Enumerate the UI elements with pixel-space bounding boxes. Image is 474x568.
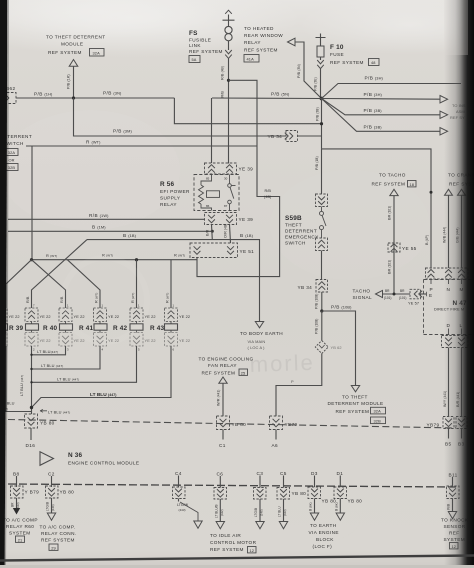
svg-text:SYSTEM: SYSTEM — [9, 531, 31, 536]
svg-text:TO THEFT: TO THEFT — [342, 395, 368, 400]
wire R (WT) from deterrent switch — [26, 145, 257, 147]
svg-text:YE 51: YE 51 — [240, 249, 255, 254]
arrow up to tacho — [390, 189, 398, 195]
text TO EARTH VIA ENGINE BLOCK — [309, 523, 339, 549]
svg-text:A6: A6 — [272, 443, 279, 448]
open arrow down (C5) — [279, 522, 287, 529]
svg-text:REF SYSTEM: REF SYSTEM — [41, 538, 75, 543]
svg-text:P/B (10B): P/B (10B) — [315, 294, 319, 309]
svg-text:LT BLU(447): LT BLU(447) — [37, 349, 58, 354]
wire P/B (10B) continues down — [321, 311, 323, 341]
svg-text:REF SYSTEM: REF SYSTEM — [189, 49, 223, 54]
pin labels B5 B3 — [445, 442, 465, 447]
junction dots on LT BLU bus — [30, 354, 32, 356]
svg-text:LT BLU (447): LT BLU (447) — [48, 410, 70, 415]
wire R/B branch right, down past relay to YE51 — [197, 80, 280, 276]
svg-text:P/B (3H): P/B (3H) — [365, 76, 384, 81]
N47 pin stubs into box — [431, 280, 462, 285]
junction dot B on feed bus — [135, 258, 138, 261]
ref box 48 — [369, 59, 380, 66]
ref box 32A (deterrent switch) — [6, 149, 18, 156]
arrow to theft deterrent module (up triangle) — [69, 60, 78, 67]
svg-text:C2: C2 — [48, 472, 55, 477]
wire R (WT) resistor feed bus — [32, 259, 198, 261]
switch S59B — [320, 207, 327, 239]
fusible link FS symbol — [223, 10, 235, 58]
svg-text:C1: C1 — [219, 443, 226, 448]
svg-text:25: 25 — [241, 370, 246, 375]
svg-text:TO IDLE AIR: TO IDLE AIR — [210, 533, 241, 538]
text TO KNOCK SENSOR — [441, 518, 469, 543]
svg-text:YE 22: YE 22 — [145, 338, 156, 343]
svg-text:P/B (10B): P/B (10B) — [331, 304, 352, 309]
wire R/B (4B) from fusible link down to relay — [228, 58, 230, 163]
svg-text:( LOC A ): ( LOC A ) — [248, 345, 266, 350]
svg-text:P/B (10B): P/B (10B) — [315, 319, 319, 334]
wire feed to R43 — [170, 260, 172, 308]
svg-text:YB 80: YB 80 — [40, 421, 55, 426]
connector above S59B (chevrons down) — [316, 194, 328, 207]
svg-text:YB 80: YB 80 — [292, 491, 307, 496]
svg-text:B8: B8 — [13, 472, 20, 477]
connector YB62 at left edge — [1, 86, 16, 104]
svg-text:D3: D3 — [311, 471, 318, 476]
svg-text:32B: 32B — [374, 418, 382, 423]
svg-text:YE 39: YE 39 — [239, 217, 254, 222]
junction dot P/B 10B — [320, 309, 323, 312]
open arrow down (knock sensor) — [448, 512, 456, 519]
svg-text:VIA ENGINE: VIA ENGINE — [309, 530, 339, 535]
wire B/R (441) from N47 L — [461, 348, 463, 417]
svg-text:YB 34: YB 34 — [268, 134, 283, 139]
wire P/B (10B) below YB34 — [321, 292, 323, 311]
svg-text:(443): (443) — [283, 509, 287, 516]
wire P/B (3H) top branch to right edge — [322, 84, 462, 99]
wire P/B (3B) arrow branch 3 — [322, 99, 441, 132]
open arrow down (C3) — [256, 522, 264, 529]
ref box 32B (deterrent switch) — [6, 164, 18, 171]
svg-text:R 56: R 56 — [160, 181, 175, 188]
wire B (1B) to body earth — [87, 240, 260, 322]
S59B labels — [285, 215, 319, 246]
junction dot A on feed bus — [30, 258, 33, 261]
text TO A/C COMP RELAY CONN — [40, 525, 77, 543]
svg-text:S59B: S59B — [285, 215, 302, 222]
svg-text:FAN RELAY: FAN RELAY — [208, 363, 237, 368]
svg-text:32B: 32B — [8, 165, 16, 170]
wire G/B (444) crank 2 down — [461, 195, 463, 268]
ref box 12 (idle air) — [248, 547, 257, 553]
wire jog P/B down to y123.7 then right to S59B vertical — [174, 98, 321, 124]
svg-text:29: 29 — [51, 545, 56, 550]
wire diagonal feed to R38 column — [6, 260, 32, 308]
svg-text:P/B (1K): P/B (1K) — [67, 74, 71, 89]
svg-text:BR: BR — [385, 289, 390, 293]
ref box 21 — [16, 536, 25, 542]
arrow up to engine cooling fan relay — [219, 377, 227, 383]
svg-text:REF SYSTEM: REF SYSTEM — [202, 371, 236, 376]
svg-text:LT BLU (447): LT BLU (447) — [57, 376, 79, 381]
svg-text:C6: C6 — [217, 472, 224, 477]
N36 identification triangle — [40, 452, 54, 466]
text TO A/C COMP RELAY R60 — [3, 518, 38, 536]
svg-text:THEFT: THEFT — [285, 223, 302, 228]
connector YE22 bottom R41 — [94, 333, 120, 347]
arrow head right 2 — [440, 111, 448, 118]
solid arrow down (A/C comp relay) — [13, 508, 20, 515]
svg-text:BR (101): BR (101) — [388, 206, 392, 220]
svg-text:LTG/B: LTG/B — [254, 508, 258, 517]
svg-text:R 43: R 43 — [150, 325, 165, 332]
svg-text:86: 86 — [206, 204, 210, 208]
wire LT BLU bus from R39 down to YB80 — [31, 346, 33, 414]
svg-text:R (WT): R (WT) — [166, 293, 170, 303]
wire stub to pin A6 — [275, 430, 277, 440]
N47 labels — [434, 300, 467, 312]
resistor R41 — [79, 322, 107, 333]
svg-text:FS: FS — [189, 30, 198, 37]
wire P/B from arrow down to main feed — [73, 66, 75, 98]
connector YB34 (chevrons up) — [298, 280, 328, 293]
ref box 5A — [189, 56, 200, 63]
svg-text:R (WT): R (WT) — [86, 140, 101, 145]
N47 module box (dashed) — [424, 280, 474, 335]
module N36 top boundary (dashed) — [8, 420, 456, 429]
svg-text:YE 22: YE 22 — [40, 338, 51, 343]
text TO TACHO — [372, 173, 406, 187]
svg-text:P/B (1H): P/B (1H) — [34, 92, 53, 97]
text TO ENGINE COOLING FAN RELAY — [199, 357, 254, 376]
connector YE22 bottom row R38 (partial) — [0, 333, 7, 347]
wire W/B to knock sensor — [452, 499, 454, 512]
wire ladder B (1M) — [8, 230, 212, 232]
svg-text:BLOCK: BLOCK — [316, 537, 334, 542]
svg-text:18: 18 — [410, 182, 415, 187]
svg-text:SIGNAL: SIGNAL — [353, 295, 372, 300]
svg-text:R (WT): R (WT) — [95, 293, 99, 303]
N36 labels — [68, 452, 139, 466]
wire down from S59B to YB34 — [321, 251, 323, 280]
svg-text:(146): (146) — [51, 504, 55, 511]
svg-text:P/B (3E): P/B (3E) — [314, 77, 318, 91]
connector below S59B (chevrons up) — [316, 238, 328, 251]
connector YE22 top R40 — [59, 308, 85, 322]
wire diagonal feed to R40 — [32, 260, 66, 308]
connector YB80 on ECM boundary (C1) — [217, 416, 247, 430]
svg-text:R/B (1W): R/B (1W) — [89, 213, 109, 218]
wire LTG/W (443) with jog — [178, 499, 180, 502]
fuse F10 labels — [330, 44, 364, 65]
wire stub to pin D16 — [30, 428, 32, 440]
svg-text:O/R (4B): O/R (4B) — [224, 224, 228, 238]
resistor R42 — [113, 322, 143, 333]
connector YE57 (chevrons left) — [408, 289, 422, 305]
connector YE22 top R39 — [25, 308, 51, 322]
relay pin numbers — [206, 177, 228, 209]
svg-text:LT BLU: LT BLU — [278, 506, 282, 517]
wire B (BK) D1 — [339, 499, 341, 514]
svg-text:P: P — [291, 379, 294, 384]
svg-text:85: 85 — [206, 177, 210, 181]
svg-text:B (BK): B (BK) — [309, 502, 313, 511]
wire down then left to YB79 — [276, 354, 322, 417]
svg-text:YB 80: YB 80 — [60, 490, 75, 495]
svg-text:R 39: R 39 — [9, 325, 24, 332]
svg-text:TO EARTH: TO EARTH — [310, 523, 337, 528]
resistor R39 — [9, 322, 39, 333]
connector YE39 pair above relay — [205, 163, 254, 174]
relay R56 contact — [228, 175, 236, 211]
svg-text:SUPPLY: SUPPLY — [160, 196, 181, 201]
svg-text:Y B79: Y B79 — [25, 490, 40, 495]
connector YB34 (right chevrons) — [268, 131, 298, 142]
svg-text:12: 12 — [250, 548, 255, 553]
svg-text:TO BODY EARTH: TO BODY EARTH — [240, 331, 283, 336]
svg-text:REAR WINDOW: REAR WINDOW — [244, 33, 283, 38]
pin labels P N M — [430, 287, 464, 292]
svg-text:LT BLU/B: LT BLU/B — [214, 504, 218, 518]
svg-text:R 41: R 41 — [79, 325, 94, 332]
connector YE22 bottom R42 — [130, 333, 156, 347]
wire tacho signal horizontal — [383, 293, 411, 295]
svg-text:BR (101): BR (101) — [388, 260, 392, 274]
svg-text:YE 22: YE 22 — [40, 314, 51, 319]
svg-text:B (BK): B (BK) — [334, 502, 338, 511]
wire W/Y (441) from N47 D — [448, 348, 450, 417]
wire B (BK) D3 — [314, 499, 316, 514]
wire ladder R/B (1W) — [8, 218, 205, 220]
svg-text:TO A/C COMP.: TO A/C COMP. — [40, 525, 76, 530]
svg-text:YB 34: YB 34 — [298, 285, 313, 290]
svg-text:REF SYSTEM: REF SYSTEM — [210, 547, 244, 552]
wire P/B (3H) arrow branch — [322, 98, 441, 101]
text TO IDLE AIR CONTROL MOTOR — [210, 533, 257, 552]
svg-text:(4B): (4B) — [264, 195, 272, 199]
svg-text:EFI POWER: EFI POWER — [160, 189, 190, 194]
svg-text:RELAY: RELAY — [160, 202, 177, 207]
text TO THEFT DETERRENT MODULE (lower) — [328, 395, 384, 414]
svg-text:LT BLU (447): LT BLU (447) — [41, 363, 63, 368]
svg-text:REF SYSTEM: REF SYSTEM — [330, 60, 364, 65]
svg-text:LT BLU (447): LT BLU (447) — [20, 375, 24, 396]
svg-text:R 40: R 40 — [43, 325, 58, 332]
wire LT BLU jog from R40 — [32, 346, 66, 355]
svg-text:YB 80: YB 80 — [348, 499, 363, 504]
svg-text:MODULE: MODULE — [61, 42, 83, 47]
svg-text:TO TACHO: TO TACHO — [379, 173, 406, 178]
right page-edge dark band — [444, 0, 474, 568]
svg-text:DETERRENT: DETERRENT — [285, 229, 317, 234]
svg-text:R/B: R/B — [265, 189, 272, 193]
svg-text:VIA MAIN: VIA MAIN — [248, 339, 266, 344]
wire P/B (1B) down to S59B — [321, 149, 323, 194]
svg-text:TO HEATED: TO HEATED — [244, 26, 274, 31]
svg-text:R/B (4B): R/B (4B) — [221, 66, 225, 80]
svg-text:REF SYSTEM: REF SYSTEM — [244, 48, 278, 53]
wire diagonal feed to R39 — [32, 240, 88, 308]
svg-text:P/B (3N): P/B (3N) — [297, 64, 301, 78]
svg-text:YE 22: YE 22 — [9, 314, 20, 319]
wire LT BLU jog from R41 — [32, 346, 101, 369]
svg-text:REF SYSTEM: REF SYSTEM — [372, 182, 406, 187]
svg-text:RELAY CONN.: RELAY CONN. — [41, 531, 77, 536]
svg-text:REF SYSTEM: REF SYSTEM — [336, 409, 370, 414]
arrow up crank 1 — [445, 189, 453, 195]
svg-text:BR: BR — [400, 289, 405, 293]
junction dot on P/B feed — [72, 96, 75, 99]
svg-text:(146): (146) — [260, 509, 264, 516]
wire LT BLU jog from R42 — [32, 346, 137, 382]
YE22 pin numbers — [33, 304, 175, 352]
svg-text:E: E — [429, 293, 433, 298]
svg-text:(LOC F): (LOC F) — [313, 544, 333, 549]
rotated wire labels above YE22 row — [26, 293, 170, 303]
fusible link FS labels — [189, 30, 223, 54]
open arrow down (D1 earth) — [336, 513, 344, 520]
pin labels D L — [447, 323, 463, 328]
connector YE51 pair — [190, 243, 254, 258]
wire LTG/B (146) — [51, 498, 53, 513]
svg-text:P/B (3H): P/B (3H) — [364, 92, 383, 97]
ref box 32B (lower) — [371, 417, 386, 424]
svg-text:B (1M): B (1M) — [92, 225, 106, 230]
svg-text:(443): (443) — [179, 508, 186, 512]
relay R56 coil — [199, 175, 220, 211]
ref box 12 (knock sensor) — [450, 543, 459, 549]
left page-edge black bar — [0, 0, 7, 568]
connector YB62 diamond — [315, 341, 341, 354]
wire stubs to pins B5 B3 — [449, 429, 462, 439]
wire BR (101) tacho down — [393, 196, 395, 294]
svg-text:W/R (441): W/R (441) — [217, 390, 221, 406]
wire W/R down to YB80 (C1) — [222, 383, 224, 416]
wire P/B (1H) main horizontal feed — [16, 97, 174, 99]
svg-text:BR: BR — [11, 502, 15, 507]
text TO BODY EARTH — [240, 331, 283, 350]
svg-text:YB 80: YB 80 — [232, 422, 247, 427]
connector row below N47 — [442, 336, 469, 348]
ref text: TO THEFT DETERRENT MODULE — [46, 35, 105, 56]
svg-text:R/B: R/B — [221, 91, 225, 98]
svg-text:FUSE: FUSE — [330, 52, 344, 57]
resistor R43 — [150, 322, 178, 333]
svg-text:C4: C4 — [175, 471, 182, 476]
wire LT BLU jog from R43 — [32, 346, 172, 408]
arrow left tacho signal — [376, 290, 383, 297]
svg-text:B (4P): B (4P) — [425, 235, 429, 245]
svg-text:RELAY: RELAY — [244, 40, 261, 45]
svg-text:CONTROL MOTOR: CONTROL MOTOR — [210, 540, 257, 545]
body earth arrow (down triangle) — [255, 322, 263, 328]
svg-text:30: 30 — [224, 177, 228, 181]
text TO CRANK — [448, 173, 474, 187]
connector YE22 bottom R39 — [25, 333, 51, 347]
LT BLU pointer label at bus — [48, 410, 70, 415]
junction dot P/B at 123.7 — [320, 122, 323, 125]
ref box 18 — [408, 181, 417, 187]
open arrow down (A/C relay conn) — [47, 513, 55, 520]
svg-text:YB79: YB79 — [427, 423, 440, 428]
connector YE22 bottom R43 — [165, 333, 191, 347]
svg-text:N 36: N 36 — [68, 452, 83, 459]
svg-text:morle: morle — [249, 350, 315, 377]
junction dot on B wire — [430, 191, 433, 194]
wire branch P/B (10B) to theft deterrent arrow — [322, 311, 356, 386]
svg-text:YE 55: YE 55 — [402, 246, 417, 251]
svg-text:YE 22: YE 22 — [179, 314, 190, 319]
bottom page border line — [0, 556, 474, 561]
connector YE22 top R43 — [165, 308, 191, 322]
wire P/B (3M) from dot down then right to YB34 — [74, 98, 287, 136]
wire relay left pin up to P/B feed — [211, 98, 213, 163]
svg-text:P/B (3B): P/B (3B) — [364, 124, 383, 129]
wire O/R relay lower-right pin down to YE51 — [230, 225, 231, 244]
wire BR (443) to A/C comp relay — [16, 498, 18, 508]
connector YB80 on ECM boundary (D16) — [25, 414, 55, 428]
svg-text:F 10: F 10 — [330, 44, 344, 51]
connector YE55 — [388, 243, 417, 252]
svg-text:LTG/B: LTG/B — [46, 502, 50, 511]
open arrow down (C4) — [194, 521, 202, 528]
svg-text:5A: 5A — [192, 57, 197, 62]
svg-text:B (1B): B (1B) — [123, 233, 137, 238]
svg-text:(442): (442) — [220, 509, 224, 516]
open arrow down (C6) — [216, 522, 224, 529]
wire W/B (444) crank 1 down — [448, 195, 450, 268]
junction dot on fusible link wire — [227, 79, 230, 82]
wire YB34 to S59B vertical — [298, 135, 322, 137]
connector YB79 on ECM boundary (A6) — [270, 416, 298, 430]
svg-text:SWITCH: SWITCH — [285, 241, 306, 246]
relay R56 labels — [160, 181, 190, 207]
pin stubs out of N47 bottom — [449, 329, 462, 335]
svg-text:D1: D1 — [337, 471, 344, 476]
wire P/B (5N) relay pin to junction — [212, 97, 322, 100]
svg-text:32A: 32A — [374, 409, 382, 414]
svg-text:87: 87 — [224, 204, 228, 208]
arrow head right 1 — [440, 96, 448, 103]
svg-text:48: 48 — [371, 60, 376, 65]
wire LT BLU/B (442) — [219, 499, 221, 522]
connector YE22 bottom R40 — [59, 333, 85, 347]
svg-text:(101): (101) — [399, 296, 406, 300]
svg-text:YE 22: YE 22 — [179, 338, 190, 343]
svg-text:YE 57: YE 57 — [408, 301, 419, 306]
arrow up crank 2 — [458, 189, 466, 195]
svg-text:YE 22: YE 22 — [108, 314, 119, 319]
svg-text:YE 39: YE 39 — [239, 167, 254, 172]
wire diagonal feed to R41 — [67, 260, 100, 308]
wire LT BLU (443) C5 — [283, 499, 285, 522]
svg-text:D16: D16 — [26, 443, 36, 448]
svg-text:P: P — [430, 287, 434, 292]
svg-text:P/B (3M): P/B (3M) — [113, 129, 132, 134]
text block: DETERRENT SWITCH ref — [0, 134, 32, 163]
svg-text:RELAY R60: RELAY R60 — [6, 524, 34, 529]
main junction node — [320, 97, 324, 101]
svg-text:LINK: LINK — [189, 43, 201, 48]
ref box 29 — [49, 544, 58, 550]
wire LT BLU jog from R38 column — [6, 346, 32, 412]
svg-text:41A: 41A — [247, 57, 255, 62]
ref box 32A (lower) — [371, 407, 386, 414]
connector row above N47 — [426, 268, 469, 279]
ref box 25 — [239, 369, 248, 375]
svg-text:B (1B): B (1B) — [240, 233, 254, 238]
svg-text:R (WT): R (WT) — [131, 293, 135, 303]
ref box 32A (top left) — [90, 49, 105, 57]
arrow down to theft deterrent module — [351, 386, 359, 392]
